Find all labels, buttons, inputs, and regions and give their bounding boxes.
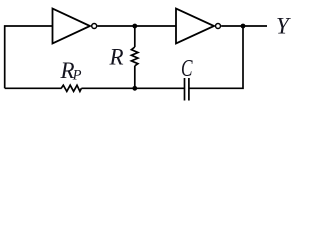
inverter U1 triangle <box>53 9 91 44</box>
resistor R (vertical zigzag) <box>131 47 138 66</box>
wire: U1 output to node A <box>97 25 176 27</box>
wire: RP to bottom node <box>81 87 184 89</box>
inverter U2 bubble <box>216 24 221 29</box>
svg-text:P: P <box>72 67 82 83</box>
wire: node A down to R <box>134 26 136 47</box>
wire: R down to bottom node <box>134 66 136 89</box>
svg-text:Y: Y <box>276 13 291 38</box>
capacitor C left plate <box>184 78 186 101</box>
capacitor C right plate <box>188 78 190 101</box>
inverter U1 bubble <box>92 24 97 29</box>
wire: capacitor to right riser <box>189 26 243 88</box>
bottom node junction dot <box>132 86 137 91</box>
wire: input from left loop into inverter U1 <box>5 26 53 88</box>
resistor RP (zigzag) <box>61 85 81 91</box>
svg-text:R: R <box>109 44 124 69</box>
inverter U2 triangle <box>176 9 214 44</box>
wire: U2 output to Y <box>221 25 267 27</box>
node A junction dot <box>132 24 137 29</box>
svg-text:C: C <box>181 56 193 82</box>
node B junction dot (output node) <box>241 24 246 29</box>
wire: bottom left segment to RP <box>5 87 62 89</box>
